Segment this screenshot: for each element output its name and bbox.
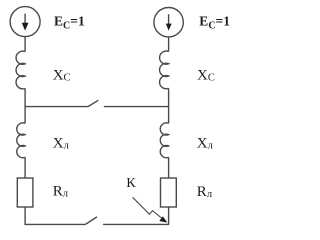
wire: bottom rail right segment	[103, 223, 169, 225]
svg-text:Rл: Rл	[53, 183, 68, 199]
wire: left source to XC coil	[24, 37, 26, 52]
fault arrow K (lightning)	[133, 197, 168, 222]
wire: left XC to XL coil (through node A)	[24, 88, 26, 123]
wire: right XC to XL coil (through node B)	[168, 88, 170, 123]
resistor RL (right)	[161, 178, 177, 207]
wire: right source to XC coil	[168, 37, 170, 52]
svg-text:XC: XC	[53, 68, 71, 84]
svg-text:Rл: Rл	[197, 184, 212, 200]
svg-text:EC=1: EC=1	[199, 14, 230, 32]
svg-text:Xл: Xл	[53, 135, 69, 151]
inductor XL (left)	[17, 123, 25, 158]
switch blade (bottom)	[85, 217, 97, 225]
current source E1 (left)	[10, 7, 40, 37]
wire: left XL to RL	[24, 157, 26, 178]
current source E2 (right)	[154, 8, 183, 37]
inductor XC (left)	[16, 51, 25, 89]
label E_C=1 (right)	[199, 14, 230, 32]
svg-text:К: К	[126, 176, 136, 191]
wire: left RL to bottom rail	[25, 207, 85, 224]
wire: middle rail right segment	[104, 106, 169, 108]
svg-text:Xл: Xл	[197, 135, 213, 151]
inductor XC (right)	[160, 51, 169, 89]
switch blade (middle)	[88, 100, 98, 106]
wire: right RL to bottom rail	[168, 207, 170, 225]
resistor RL (left)	[17, 178, 33, 207]
svg-text:XC: XC	[197, 68, 215, 84]
wire: right XL to RL	[168, 157, 170, 178]
inductor XL (right)	[160, 123, 168, 158]
wire: middle rail left segment	[25, 106, 88, 108]
svg-text:EC=1: EC=1	[54, 14, 85, 32]
label E_C=1 (left)	[54, 14, 85, 32]
